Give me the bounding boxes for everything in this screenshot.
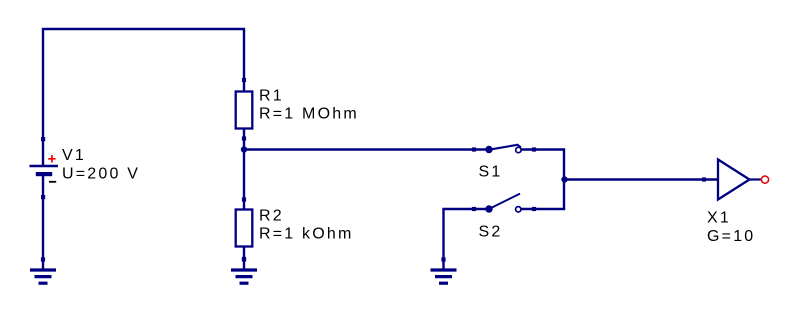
wire S2 right contact to right vertical (521, 208, 566, 210)
wire battery minus to ground (42, 176, 44, 270)
node A junction dot (241, 146, 247, 152)
battery plus sign (red) (48, 155, 55, 162)
svg-text:R=1 kOhm: R=1 kOhm (259, 226, 354, 243)
svg-text:G=10: G=10 (707, 228, 755, 245)
wire node A to R2 top (243, 149, 245, 210)
svg-text:R=1 MOhm: R=1 MOhm (259, 106, 359, 123)
svg-text:X1: X1 (707, 210, 731, 227)
wire R1 bottom to node A (243, 128, 245, 150)
wire R2 bottom to ground (243, 247, 245, 270)
resistor R1 (236, 78, 253, 141)
switch S1 (closed) (472, 145, 536, 153)
switch S2 (open) (472, 194, 536, 213)
op-amp X1 gain block (702, 160, 769, 200)
svg-text:R1: R1 (259, 88, 284, 105)
battery minus sign (49, 181, 56, 183)
svg-text:R2: R2 (259, 208, 284, 225)
svg-text:S2: S2 (479, 224, 503, 241)
wire node A to switch S1 left contact (244, 148, 487, 150)
wire left vertical from top corner to battery (42, 28, 245, 166)
wire S2 left contact to corner down to ground (444, 209, 487, 270)
ground below battery (30, 257, 56, 283)
ground below R2 (231, 257, 257, 283)
battery V1 (30, 137, 59, 199)
node B junction dot (561, 176, 567, 182)
svg-text:U=200 V: U=200 V (62, 166, 140, 183)
wire S1 right contact to right corner down to S2 (521, 150, 565, 210)
resistor R2 (236, 197, 253, 261)
wire node B to amplifier input (564, 178, 718, 180)
svg-text:V1: V1 (62, 147, 86, 164)
ground below S2 left (431, 257, 457, 283)
svg-text:S1: S1 (479, 164, 503, 181)
